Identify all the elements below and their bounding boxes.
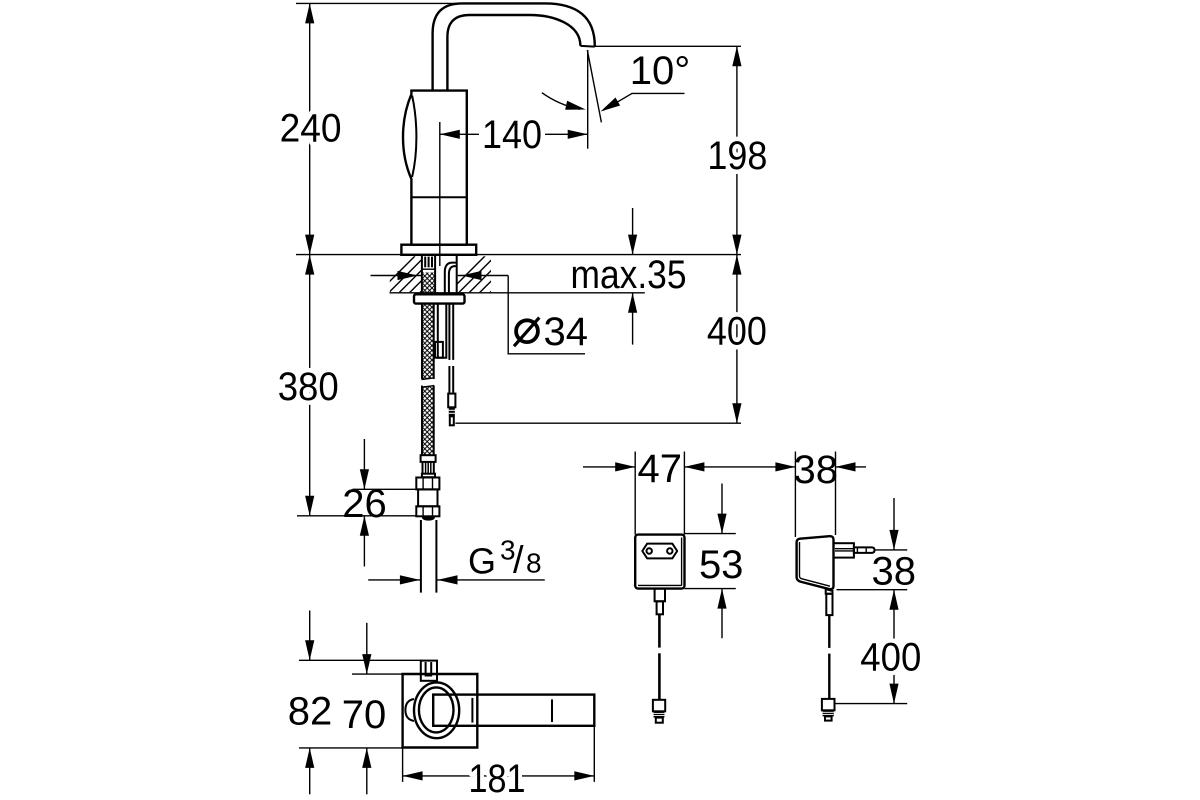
svg-text:53: 53 — [699, 543, 744, 587]
svg-text:82: 82 — [288, 689, 333, 733]
svg-text:8: 8 — [526, 548, 542, 579]
svg-text:70: 70 — [342, 693, 387, 737]
svg-text:38: 38 — [794, 448, 839, 492]
svg-text:10°: 10° — [630, 49, 691, 93]
svg-text:198: 198 — [707, 134, 767, 178]
svg-text:38: 38 — [872, 550, 917, 594]
svg-text:380: 380 — [278, 365, 339, 409]
svg-text:47: 47 — [638, 447, 683, 491]
svg-text:G: G — [468, 540, 496, 581]
svg-text:140: 140 — [482, 113, 542, 157]
svg-text:/: / — [513, 540, 524, 582]
svg-text:400: 400 — [707, 310, 767, 354]
svg-text:240: 240 — [280, 107, 342, 151]
svg-text:26: 26 — [342, 482, 387, 526]
svg-text:400: 400 — [860, 636, 921, 680]
svg-text:181: 181 — [469, 757, 526, 800]
svg-text:34: 34 — [544, 310, 589, 354]
svg-text:max.35: max.35 — [571, 253, 687, 297]
